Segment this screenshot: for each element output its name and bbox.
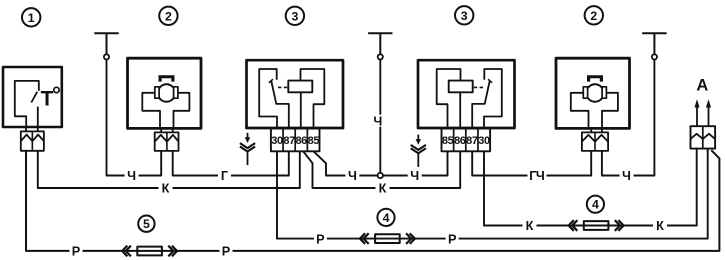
ground symbol left — [240, 133, 255, 165]
label G — [218, 170, 231, 182]
wire: G net motor2 right pin to relay1 pin 87 — [173, 151, 289, 176]
node: junction circle on ch net — [378, 173, 383, 178]
component 3: relay right (mirror) — [418, 60, 515, 151]
svg-text:87: 87 — [283, 135, 295, 147]
svg-text:4: 4 — [383, 211, 390, 225]
svg-text:30: 30 — [478, 135, 490, 147]
svg-text:30: 30 — [271, 135, 283, 147]
wire: K net switch 1 to relay1 pin 86 — [38, 151, 300, 188]
wire: ch net motor right pin to T3 — [602, 60, 655, 176]
label ch right — [620, 170, 634, 182]
label P fuse4L left — [314, 233, 327, 245]
node 2 marker — [159, 7, 177, 25]
component 3: relay left — [247, 60, 344, 151]
svg-text:T: T — [41, 88, 54, 111]
component 1: thermo switch box — [3, 67, 62, 127]
wire labels — [70, 77, 709, 259]
node 3 marker right — [455, 6, 473, 24]
node 3 marker — [286, 7, 304, 25]
node 1 marker — [22, 8, 40, 26]
connector block under switch 1 — [21, 127, 44, 151]
wire: P net relay1 pin 30 through fuse 4 to connector A — [277, 149, 708, 239]
component 2: fan motor left — [128, 58, 202, 151]
svg-text:А: А — [696, 77, 708, 95]
svg-text:Г: Г — [221, 169, 228, 183]
label ch on T1-motor wire — [125, 170, 139, 182]
svg-text:Ч: Ч — [622, 169, 631, 183]
node 2 marker right — [585, 6, 603, 24]
label ch on T2 drop — [372, 115, 385, 127]
node 5 marker — [138, 216, 154, 232]
label P bottom mid — [220, 245, 233, 257]
svg-text:Р: Р — [222, 245, 231, 259]
label K fuse4R left — [523, 220, 537, 232]
svg-text:Р: Р — [72, 245, 81, 259]
wire: gch net relay2 pin 87 to motor right left pin — [472, 151, 591, 176]
component 2: fan motor right — [556, 58, 630, 151]
wire: ch net relay1 pin 85 to relay2 pin 85 — [314, 151, 448, 175]
wire: supply T1 to motor 2 left pin (ch) — [107, 59, 162, 175]
svg-text:К: К — [526, 219, 534, 233]
label K fuse4R right — [653, 220, 667, 232]
power tap T1 — [94, 33, 118, 59]
svg-text:К: К — [656, 219, 664, 233]
svg-text:85: 85 — [308, 135, 320, 147]
circled numbers — [22, 6, 604, 232]
svg-text:3: 3 — [461, 9, 468, 23]
label P fuse4L right — [446, 233, 459, 245]
svg-text:85: 85 — [442, 135, 454, 147]
ground symbol right — [411, 135, 426, 167]
svg-text:2: 2 — [165, 9, 172, 23]
relay pin numbers — [271, 135, 490, 147]
label gch — [528, 170, 547, 182]
svg-text:86: 86 — [454, 135, 466, 147]
label ch mid-right — [408, 170, 422, 182]
connector A — [691, 99, 716, 148]
svg-text:ГЧ: ГЧ — [529, 169, 545, 183]
svg-text:Ч: Ч — [410, 169, 419, 183]
power tap T2 with drop to junction — [368, 33, 392, 173]
wire: K net relay2 pin 30 through fuse 4 to connector A — [484, 149, 697, 226]
svg-text:Ч: Ч — [348, 169, 357, 183]
svg-text:87: 87 — [466, 135, 478, 147]
node 4 marker right — [587, 196, 604, 213]
fuse 4 symbol right — [569, 220, 624, 231]
label ch mid-left — [345, 170, 359, 182]
label K left — [159, 182, 173, 194]
svg-text:Ч: Ч — [373, 114, 382, 128]
svg-text:1: 1 — [28, 11, 35, 25]
fuse 5 symbol — [122, 246, 177, 257]
fuse 4 symbol left — [360, 233, 415, 244]
svg-text:К: К — [162, 182, 170, 196]
svg-text:3: 3 — [291, 9, 298, 23]
svg-text:2: 2 — [590, 9, 597, 23]
wire: bottom P net from switch 1 to connector A — [26, 150, 719, 251]
power tap T3 — [642, 33, 666, 59]
svg-text:5: 5 — [143, 217, 150, 231]
svg-text:86: 86 — [295, 135, 307, 147]
node 4 marker left — [377, 209, 394, 226]
svg-text:Ч: Ч — [127, 169, 136, 183]
svg-text:К: К — [379, 182, 387, 196]
label K center — [376, 182, 390, 194]
svg-text:Р: Р — [448, 232, 457, 246]
wire: K net relay1 pin 86 fan to relay2 pin 86 — [303, 151, 460, 188]
svg-text:Р: Р — [316, 232, 325, 246]
label P bottom left — [70, 245, 83, 257]
svg-text:4: 4 — [592, 198, 599, 212]
